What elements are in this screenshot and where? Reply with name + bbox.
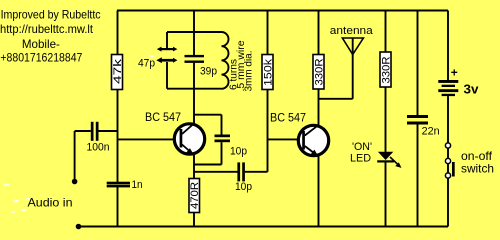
wire Q2 emitter vertical — [318, 156, 320, 227]
node ground terminal dot — [76, 224, 82, 230]
wire Q1 emitter vertical — [193, 154, 195, 227]
svg-text:Audio in: Audio in — [28, 196, 73, 210]
label Audio in — [28, 196, 73, 210]
resistor 470R — [189, 179, 201, 213]
svg-text:150k: 150k — [262, 58, 274, 86]
svg-text:100n: 100n — [87, 142, 110, 154]
svg-text:+8801716218847: +8801716218847 — [0, 51, 82, 65]
wire left bias branch (47k / 1n vertical) — [117, 11, 119, 227]
svg-text:22n: 22n — [422, 126, 440, 138]
svg-text:47p: 47p — [138, 58, 155, 70]
label title block — [0, 8, 101, 65]
svg-text:10p: 10p — [230, 146, 247, 158]
capacitor 10p feedback with wires — [194, 115, 247, 165]
capacitor 1n — [107, 179, 143, 191]
svg-text:Improved by Rubelttc: Improved by Rubelttc — [1, 8, 101, 22]
transistor Q2 BC 547 — [270, 111, 329, 157]
svg-text:3mm dia.: 3mm dia. — [243, 51, 255, 92]
wire tank circuit loop — [167, 32, 222, 89]
svg-text:LED: LED — [350, 153, 371, 165]
wire bottom ground rail — [78, 226, 448, 228]
svg-text:47k: 47k — [112, 58, 124, 84]
svg-text:antenna: antenna — [330, 25, 374, 37]
svg-text:Mobile-: Mobile- — [22, 37, 60, 51]
capacitor 100n — [75, 122, 118, 154]
resistor 330R collector load with wires — [313, 11, 325, 127]
svg-text:'ON': 'ON' — [352, 141, 372, 153]
wire Q1 base — [118, 138, 175, 140]
battery 3v — [438, 11, 479, 144]
capacitor 47p variable trimmer — [138, 47, 177, 70]
svg-text:switch: switch — [461, 162, 494, 176]
resistor 150k with wires — [262, 11, 274, 172]
wire Q2 base — [268, 138, 299, 140]
node audio input terminal — [72, 131, 78, 184]
LED 'ON' indicator — [350, 141, 402, 227]
capacitor 10p coupling with wires — [194, 162, 268, 193]
svg-text:10p: 10p — [235, 181, 252, 193]
svg-text:330R: 330R — [380, 56, 392, 83]
capacitor 22n with wires — [407, 11, 440, 227]
resistor 47k — [112, 55, 124, 90]
svg-text:330R: 330R — [313, 58, 325, 85]
antenna — [319, 25, 374, 99]
inductor coil 6 turns — [222, 32, 255, 92]
wire main collector branch (rail to 39p to Q1) — [193, 11, 195, 125]
switch on-off — [445, 143, 494, 227]
svg-text:http://rubelttc.mw.lt: http://rubelttc.mw.lt — [0, 22, 94, 36]
svg-text:BC 547: BC 547 — [145, 110, 181, 124]
svg-text:1n: 1n — [132, 179, 143, 191]
svg-text:+: + — [451, 66, 458, 80]
transistor Q1 BC 547 — [145, 110, 205, 155]
svg-text:470R: 470R — [189, 182, 201, 209]
wire top Vcc rail — [117, 10, 448, 12]
resistor 330R LED limiter with wires — [380, 11, 392, 153]
capacitor 39p — [185, 55, 218, 78]
svg-text:3v: 3v — [464, 82, 480, 97]
svg-text:BC 547: BC 547 — [270, 111, 306, 125]
svg-text:39p: 39p — [200, 66, 217, 78]
